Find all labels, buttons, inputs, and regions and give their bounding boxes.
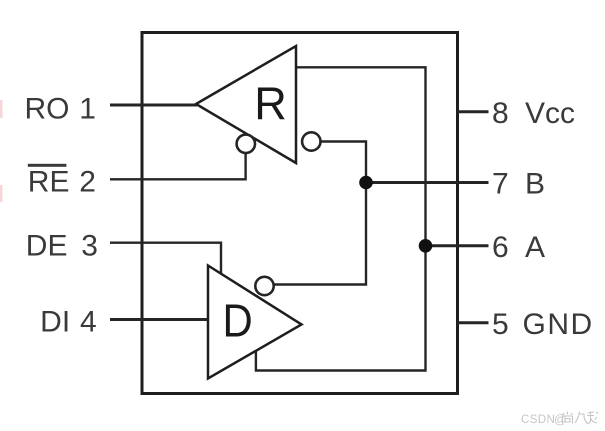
pin 8 stub Vcc	[457, 110, 489, 113]
svg-text:D: D	[223, 296, 253, 348]
pin 2 wire RE	[110, 153, 246, 180]
wire net B vertical from R bubble to D bubble	[275, 142, 367, 285]
svg-text:GND: GND	[523, 308, 594, 341]
svg-text:CSDN: CSDN	[521, 414, 555, 426]
inverting output bubble on driver (to B)	[255, 277, 273, 295]
inverting input bubble on receiver (B)	[302, 132, 320, 150]
enable bubble on receiver (RE)	[237, 135, 255, 153]
svg-text:RE 2: RE 2	[28, 165, 96, 198]
svg-text:Vcc: Vcc	[525, 97, 575, 130]
stray pink mark upper left edge	[0, 100, 3, 118]
svg-text:RO 1: RO 1	[24, 93, 96, 126]
pin 1 wire RO	[110, 104, 197, 107]
svg-text:5: 5	[492, 308, 509, 341]
pin 6 wire A	[426, 244, 489, 247]
receiver U1R triangle	[196, 46, 296, 163]
overline over RE	[28, 164, 67, 167]
svg-text:DE 3: DE 3	[26, 230, 98, 263]
svg-text:B: B	[525, 168, 545, 201]
wire receiver A-input from R base to right vertical	[256, 67, 426, 370]
junction dot node A	[419, 239, 433, 253]
junction dot node B	[359, 176, 373, 190]
pin 7 wire B	[366, 181, 489, 184]
stray pink mark lower left edge	[0, 185, 3, 202]
svg-text:R: R	[254, 78, 287, 130]
svg-text:6: 6	[492, 231, 509, 264]
pin 3 wire DE	[110, 243, 221, 275]
watermark CJK glyph jiu	[575, 412, 588, 424]
IC body outline U1	[142, 33, 458, 394]
svg-text:DI 4: DI 4	[40, 305, 97, 338]
watermark CJK glyph shang	[563, 412, 573, 424]
svg-text:7: 7	[492, 168, 509, 201]
pin 5 stub GND	[457, 321, 489, 324]
svg-text:8: 8	[492, 97, 509, 130]
driver U1D triangle	[208, 266, 302, 379]
pin 4 wire DI	[110, 318, 208, 321]
watermark CJK glyph long	[587, 412, 598, 424]
svg-text:A: A	[525, 231, 545, 264]
